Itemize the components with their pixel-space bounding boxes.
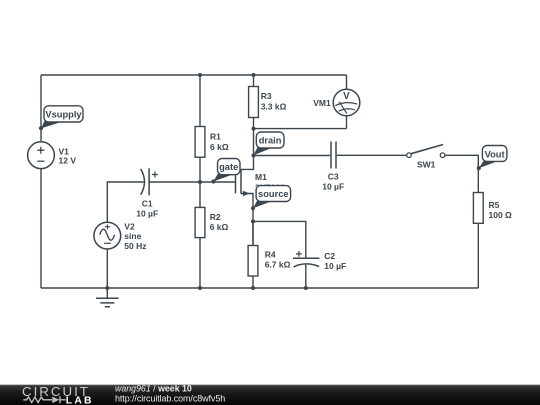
svg-text:50 Hz: 50 Hz [124,241,146,251]
svg-text:12 V: 12 V [59,156,77,166]
svg-text:Vout: Vout [485,149,505,159]
svg-text:R3: R3 [261,91,272,101]
svg-text:V: V [343,91,350,102]
svg-text:drain: drain [259,136,282,146]
svg-text:LAB: LAB [66,395,94,405]
svg-text:SW1: SW1 [417,160,436,170]
svg-text:10 µF: 10 µF [324,261,346,271]
svg-text:gate: gate [219,162,238,172]
svg-text:6.7 kΩ: 6.7 kΩ [265,260,291,270]
svg-text:http://circuitlab.com/c8wfv5h: http://circuitlab.com/c8wfv5h [115,394,225,404]
svg-text:R1: R1 [210,131,221,141]
svg-text:C1: C1 [142,199,153,209]
svg-text:10 µF: 10 µF [322,181,344,191]
svg-text:V2: V2 [124,221,135,231]
svg-text:6 kΩ: 6 kΩ [210,222,229,232]
svg-text:M1: M1 [255,172,267,182]
svg-text:R4: R4 [265,249,276,259]
svg-text:C2: C2 [324,251,335,261]
svg-text:Vsupply: Vsupply [45,109,82,119]
svg-text:wang961 / week 10: wang961 / week 10 [115,384,192,394]
svg-text:10 µF: 10 µF [136,208,158,218]
svg-text:R5: R5 [489,200,500,210]
svg-text:R2: R2 [210,212,221,222]
svg-text:100 Ω: 100 Ω [489,210,513,220]
svg-text:source: source [258,189,289,199]
svg-text:3.3 kΩ: 3.3 kΩ [261,101,287,111]
svg-text:sine: sine [124,231,141,241]
svg-text:VM1: VM1 [313,98,331,108]
svg-text:6 kΩ: 6 kΩ [210,142,229,152]
svg-text:C3: C3 [328,172,339,182]
